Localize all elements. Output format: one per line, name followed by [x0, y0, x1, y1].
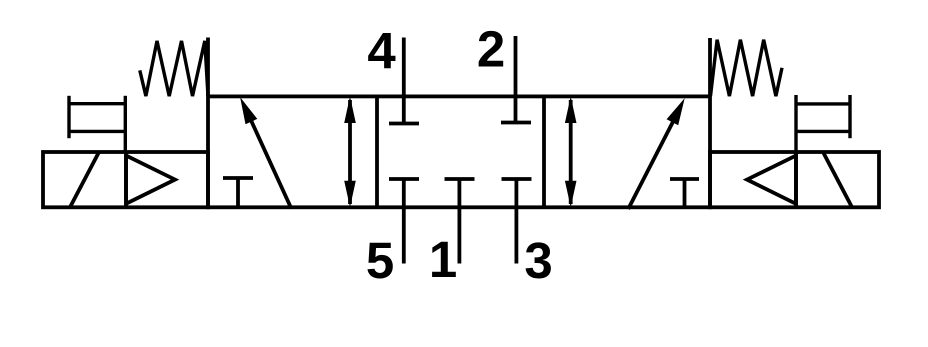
valve body outer frame — [208, 96, 710, 207]
port 3 blocked seat — [502, 177, 532, 181]
port 4 stem — [402, 38, 406, 124]
port 5 blocked seat — [389, 177, 419, 181]
spring left — [140, 41, 208, 96]
svg-text:5: 5 — [366, 232, 394, 289]
port 2 stem — [514, 36, 518, 123]
flow diagonal arrow box3 — [628, 98, 685, 209]
solenoid left internal divider — [124, 152, 128, 207]
pilot triangle right — [747, 156, 796, 204]
svg-text:3: 3 — [524, 232, 552, 289]
pilot triangle left — [126, 156, 175, 204]
port 4 blocked seat — [389, 122, 419, 126]
svg-text:2: 2 — [477, 21, 505, 78]
svg-text:4: 4 — [367, 22, 396, 79]
solenoid assembly box left — [43, 152, 208, 207]
blocked port T box3 — [670, 179, 699, 207]
flow double arrow box1 — [344, 96, 356, 207]
solenoid coil Y1 diagonal — [70, 152, 99, 207]
port 1 stem — [457, 179, 461, 264]
divider between position box 2 and box 3 — [542, 96, 546, 207]
divider between position box 1 and box 2 — [375, 96, 379, 207]
manual override left — [69, 96, 125, 152]
solenoid right internal divider — [794, 152, 798, 207]
port 2 blocked seat — [501, 121, 531, 125]
right frame extension line — [708, 38, 712, 96]
port 3 stem — [515, 179, 519, 264]
manual override right — [796, 95, 850, 152]
solenoid coil Y2 diagonal — [823, 152, 852, 207]
flow diagonal arrow box1 — [240, 97, 291, 208]
spring right — [711, 40, 783, 96]
flow double arrow box3 — [565, 96, 577, 207]
solenoid assembly box right — [710, 152, 879, 207]
svg-text:1: 1 — [429, 231, 457, 288]
blocked port T box1 — [223, 178, 253, 207]
left frame extension line — [206, 38, 210, 97]
port 1 blocked seat — [445, 177, 475, 181]
port 5 stem — [402, 179, 406, 264]
